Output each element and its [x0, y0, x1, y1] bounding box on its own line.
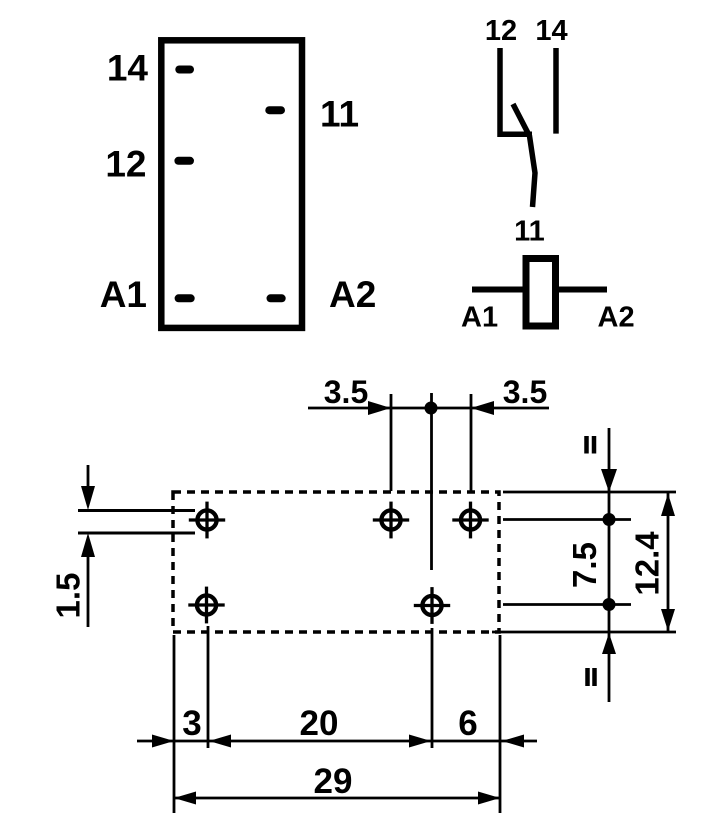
equal-spacing mark top	[587, 436, 595, 454]
svg-text:20: 20	[300, 704, 339, 743]
svg-text:11: 11	[514, 216, 545, 248]
extension line: footprint bottom edge right	[492, 631, 676, 634]
dim 3.5 left: dimension line	[308, 407, 391, 410]
svg-text:11: 11	[320, 94, 359, 135]
dim 20 right arrowhead	[409, 735, 431, 748]
dim 7.5 upper arrowhead	[601, 469, 617, 492]
svg-text:12: 12	[105, 144, 146, 185]
extension line: left hole column down	[207, 626, 210, 748]
svg-text:29: 29	[314, 762, 353, 801]
dim 12.4 dimension line	[667, 493, 670, 631]
svg-text:3.5: 3.5	[324, 374, 368, 410]
dim 3.5 right: dimension line	[471, 407, 549, 410]
extension line pin 12 column	[390, 394, 393, 491]
svg-text:12: 12	[485, 15, 517, 47]
wire: contact 12 foot	[498, 132, 533, 138]
dim 3.5 span line	[391, 407, 471, 410]
node dot bottom hole row	[603, 598, 616, 611]
dim 7.5 lower arrowhead	[602, 633, 616, 654]
svg-text:14: 14	[535, 15, 567, 47]
extension line: centre column down	[431, 628, 434, 748]
svg-text:12.4: 12.4	[629, 531, 666, 596]
pin A2 terminal	[271, 294, 282, 302]
svg-text:A1: A1	[461, 302, 498, 334]
hole pin 11 (bottom-middle)	[414, 587, 450, 624]
dim 1.5: upper tangent line	[78, 509, 195, 512]
dim 7.5 dimension line	[608, 428, 611, 702]
extension line: top hole row right	[503, 518, 631, 521]
dim 1.5: lower tangent line	[78, 532, 195, 535]
svg-text:7.5: 7.5	[566, 542, 603, 588]
node dot at centre line	[425, 402, 438, 415]
dim 29 right arrowhead	[478, 792, 500, 805]
svg-text:3: 3	[182, 704, 201, 743]
extension line: footprint right edge down	[499, 635, 502, 813]
contact arm (NC switch blade)	[513, 104, 535, 207]
dim 1.5: lower arrowhead	[81, 533, 95, 557]
pin 14 terminal	[179, 66, 190, 74]
dim 6 outer arrowhead	[502, 735, 524, 748]
pin 12 terminal	[178, 157, 190, 165]
wire: contact 14 lead	[553, 48, 559, 134]
svg-text:A2: A2	[329, 274, 376, 315]
hole pin A1 (top-left)	[189, 502, 225, 539]
dim 29 left arrowhead	[174, 792, 196, 805]
coil A1-A2	[526, 259, 556, 327]
wire: contact 12 lead	[497, 48, 503, 137]
node dot top hole row	[603, 513, 616, 526]
centre line through pin 11	[430, 393, 433, 570]
wire: A1 lead	[472, 287, 523, 293]
svg-text:A1: A1	[100, 274, 147, 315]
svg-text:1.5: 1.5	[50, 573, 87, 619]
svg-text:3.5: 3.5	[503, 374, 547, 410]
dim 12.4 lower arrowhead	[661, 609, 675, 631]
dim 20 left arrowhead	[209, 735, 231, 748]
extension line: footprint left edge down	[173, 635, 176, 813]
extension line: bottom hole row right	[503, 603, 631, 606]
dim 29 dimension line	[174, 797, 500, 800]
chained dimension line 3-20-6	[137, 740, 537, 743]
svg-text:14: 14	[107, 48, 149, 89]
svg-text:6: 6	[458, 704, 477, 743]
dim 3.5 right: arrowhead	[471, 401, 494, 415]
pin A1 terminal	[179, 294, 191, 302]
footprint outline (dashed)	[173, 492, 499, 632]
svg-text:A2: A2	[598, 302, 635, 334]
dim 3 outer arrowhead	[152, 735, 174, 748]
extension line: footprint top edge right	[503, 491, 676, 494]
dim 12.4 upper arrowhead	[661, 494, 675, 517]
dim 1.5: lower tail	[87, 556, 90, 627]
hole pin 14 (top-right)	[452, 502, 488, 539]
dim 1.5: upper tail	[87, 465, 90, 488]
wire: A2 lead	[559, 287, 607, 293]
equal-spacing mark bottom	[588, 668, 595, 686]
dim 1.5: upper arrowhead	[81, 486, 95, 510]
hole pin A2 (bottom-left)	[188, 587, 224, 624]
relay body outline (pinout view)	[161, 40, 302, 328]
extension line pin 14 column	[470, 394, 473, 491]
dim 3.5 left: arrowhead	[368, 401, 391, 415]
hole pin 12 (top-middle)	[373, 502, 409, 539]
pin 11 terminal	[269, 106, 281, 114]
